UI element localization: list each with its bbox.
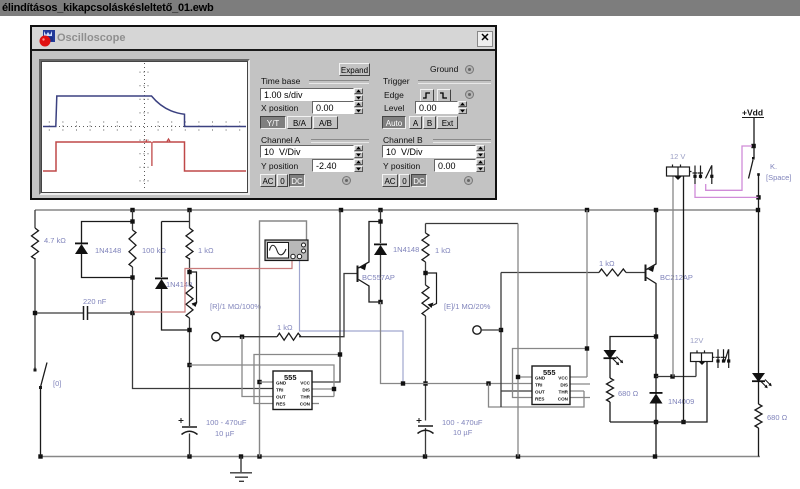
capacitor C1 220 nF wire: [35, 312, 133, 314]
node dot battery1 left line: [670, 374, 674, 378]
diode D3 1N4148 symbol: [374, 244, 387, 256]
svg-text:TRI: TRI: [276, 387, 283, 392]
wire branch down from TRI2 net: [489, 384, 585, 408]
battery B2 12V symbol: [691, 350, 715, 361]
wire red scope channel A probe: [134, 261, 292, 312]
svg-text:THR: THR: [559, 389, 569, 394]
svg-text:[0]: [0]: [53, 379, 61, 388]
diode D1 1N4148 symbol: [75, 243, 88, 255]
svg-text:VCC: VCC: [300, 380, 310, 385]
wire left branch top: [34, 210, 36, 367]
svg-text:1 kΩ: 1 kΩ: [599, 259, 615, 268]
wire terminal circle 2 to net: [481, 329, 501, 331]
svg-text:1N4148: 1N4148: [393, 245, 419, 254]
svg-text:1 kΩ: 1 kΩ: [198, 246, 214, 255]
diode D1 1N4148 loop wire: [82, 222, 133, 278]
wire scope ground net: [260, 221, 307, 457]
terminal node circle 2: [473, 326, 481, 334]
scope trace channel B glitch spikes: [146, 139, 170, 166]
LED LED1 arrows: [613, 357, 622, 364]
wire switch to rail: [758, 197, 760, 210]
op-amp U1 555 timer: [273, 371, 312, 410]
wire DIS2 stub: [570, 383, 590, 385]
svg-text:OUT: OUT: [276, 394, 286, 399]
wire Vdd down to switch: [753, 118, 755, 146]
node dot 220nF-100k junction: [33, 311, 135, 315]
node dot OUT junction: [240, 335, 244, 339]
svg-text:DIS: DIS: [302, 387, 310, 392]
capacitor C1 220 nF plates: [84, 306, 88, 320]
wire 100k branch: [133, 210, 274, 389]
svg-text:[R]/1 MΩ/100%: [R]/1 MΩ/100%: [210, 302, 261, 311]
node dots pot E: [423, 271, 427, 386]
svg-text:10 µF: 10 µF: [215, 429, 235, 438]
diode D2 1N4148 branch wire: [162, 222, 190, 331]
switch S2 (relay contact) upper: [693, 165, 712, 184]
wire VCC line: [312, 210, 340, 382]
svg-text:1 kΩ: 1 kΩ: [435, 246, 451, 255]
svg-text:1N4148: 1N4148: [166, 280, 192, 289]
wire CON stub: [312, 403, 319, 405]
svg-text:[Space]: [Space]: [766, 173, 791, 182]
wire pot E chain top loop: [426, 224, 519, 457]
svg-text:100 kΩ: 100 kΩ: [142, 246, 166, 255]
capacitor C2 100-470uF plates: [182, 427, 198, 435]
transistor Q1 BC557AP emitter wire: [359, 222, 381, 269]
wire battery1 terminals down through rail: [672, 177, 674, 377]
Channel B group: [383, 135, 423, 145]
switch K [Space] key: [749, 146, 759, 197]
node dots on bottom rail: [38, 454, 657, 458]
svg-text:CON: CON: [558, 396, 569, 401]
svg-text:100 - 470uF: 100 - 470uF: [206, 418, 247, 427]
Oscilloscope window: [30, 25, 497, 200]
Ground label + radio: [430, 64, 458, 74]
ground symbol: [230, 457, 252, 482]
transistor Q2 BC212AP emitter arrow: [648, 266, 655, 273]
oscilloscope instrument icon: [265, 240, 308, 261]
svg-text:12 V: 12 V: [670, 152, 685, 161]
transistor Q2 BC212AP collector wire: [647, 278, 657, 337]
wire GND stub: [260, 381, 274, 383]
scope trace channel B (red): [43, 142, 246, 171]
svg-text:RES: RES: [276, 401, 285, 406]
transistor Q2 BC212AP base bar: [645, 265, 647, 282]
node dots on 100k branch: [130, 219, 134, 279]
svg-text:4.7 kΩ: 4.7 kΩ: [44, 236, 66, 245]
svg-text:+Vdd: +Vdd: [742, 108, 763, 118]
svg-text:OUT: OUT: [535, 389, 545, 394]
wire battery2 left terminal down: [656, 361, 696, 377]
svg-text:680 Ω: 680 Ω: [618, 389, 639, 398]
wire battery2 bottom link: [610, 361, 707, 422]
switch J1 [0]: [35, 363, 47, 457]
top power rail: [35, 209, 760, 211]
svg-text:BC212AP: BC212AP: [660, 273, 693, 282]
svg-text:DIS: DIS: [560, 382, 568, 387]
resistor R6 1 kOhm: [422, 233, 429, 262]
capacitor C3 100-470uF plates: [418, 426, 434, 434]
svg-text:BC557AP: BC557AP: [362, 273, 395, 282]
svg-text:K.: K.: [770, 162, 777, 171]
wire VCC2 net: [513, 210, 588, 398]
resistor R9 680 Ohm: [607, 378, 614, 402]
resistor R8 1 kOhm BC212 base: [599, 269, 626, 276]
svg-text:10 µF: 10 µF: [453, 428, 473, 437]
wire 1k/pot R branch: [189, 210, 191, 457]
resistor R5 1 kOhm pullup: [277, 333, 301, 340]
capacitor C3 plus sign: [417, 418, 422, 423]
svg-text:220 nF: 220 nF: [83, 297, 107, 306]
wire OUT pin to junction: [242, 337, 273, 397]
wire GND2 rail line: [518, 224, 532, 457]
switch S3 (relay contact) lower: [716, 349, 729, 368]
capacitor C2 plus sign: [179, 418, 184, 423]
resistor R1 4.7 kOhm: [32, 228, 39, 259]
node dots pot R: [187, 270, 191, 367]
LED LED2 arrows: [761, 380, 770, 387]
scope trace channel A (blue): [43, 96, 246, 127]
Expand button: [339, 63, 370, 76]
svg-text:CON: CON: [300, 401, 311, 406]
Trigger group: [383, 76, 410, 86]
Time base group: [261, 76, 300, 86]
diode D2 1N4148 symbol: [155, 278, 168, 290]
node dots 1N4009 line: [654, 374, 686, 424]
potentiometer R4 [R] body: [186, 285, 193, 318]
svg-text:680 Ω: 680 Ω: [767, 413, 788, 422]
terminal node circle (output test point): [212, 333, 220, 341]
svg-text:1N4148: 1N4148: [95, 246, 121, 255]
resistor R2 100 kOhm: [129, 230, 136, 267]
resistor R3 1 kOhm: [186, 228, 193, 259]
power +Vdd symbol: [742, 117, 764, 119]
wire 1k pull-up from OUT to BC557 base: [220, 274, 356, 337]
scope grid horizontal axis: [43, 63, 246, 191]
svg-text:RES: RES: [535, 396, 544, 401]
wire blue scope channel B probe: [300, 261, 404, 382]
wire magenta bypass A: [706, 146, 752, 190]
wire TRI2 long net: [381, 302, 533, 384]
op-amp U2 555 timer: [532, 366, 570, 405]
wire DIS/THR net: [190, 365, 335, 397]
diode D4 1N4009 symbol: [650, 392, 663, 404]
wire right LED branch: [758, 210, 760, 457]
node dot GND2: [516, 375, 520, 379]
svg-text:GND: GND: [535, 375, 546, 380]
svg-text:12V: 12V: [690, 336, 703, 345]
battery B1 12V symbol: [667, 165, 692, 177]
potentiometer R7 wiper: [426, 273, 437, 306]
svg-text:TRI: TRI: [535, 382, 542, 387]
svg-text:THR: THR: [301, 394, 311, 399]
node dot RES/VCC: [338, 352, 342, 356]
svg-text:GND: GND: [276, 380, 287, 385]
svg-text:1N4009: 1N4009: [668, 397, 694, 406]
diode D3 1N4148 line: [380, 210, 382, 302]
Channel A group: [261, 135, 300, 145]
svg-text:VCC: VCC: [558, 375, 568, 380]
bottom ground rail: [41, 456, 761, 458]
wire LED1 branch top: [610, 337, 656, 423]
node dot VCC2: [585, 346, 589, 350]
potentiometer R4 wiper: [190, 272, 197, 305]
transistor Q1 BC557AP base bar: [357, 266, 359, 283]
LED LED1 symbol: [604, 350, 617, 359]
node dot DIS: [332, 387, 336, 391]
wire magenta bypass B: [695, 184, 759, 197]
transistor Q2 BC212AP emitter wire: [647, 210, 657, 270]
svg-text:[E]/1 MΩ/20%: [E]/1 MΩ/20%: [444, 302, 491, 311]
LED LED2 symbol: [752, 373, 765, 382]
wire 1N4009 branch: [655, 337, 657, 457]
resistor R10 680 Ohm: [755, 404, 762, 428]
transistor Q1 BC557AP emitter arrow (PNP): [360, 264, 367, 271]
wire OUT2 to BC212 base net: [501, 273, 645, 408]
wire CON2 stub: [570, 397, 590, 399]
node dots diode D3 line: [378, 219, 382, 304]
node dots on top rail: [130, 208, 760, 212]
node dots scope ground net: [257, 380, 261, 384]
scope grid division ticks: [49, 72, 239, 181]
potentiometer R7 [E] body: [422, 285, 429, 316]
node dots TRI2 net: [401, 381, 491, 385]
wire RES pin to VCC line: [254, 355, 340, 404]
node dot collector junction: [654, 334, 658, 338]
transistor Q1 BC557AP collector wire: [359, 280, 381, 303]
node dot terminal circle net: [499, 328, 503, 332]
svg-text:100 - 470uF: 100 - 470uF: [442, 418, 483, 427]
svg-text:1 kΩ: 1 kΩ: [277, 323, 293, 332]
